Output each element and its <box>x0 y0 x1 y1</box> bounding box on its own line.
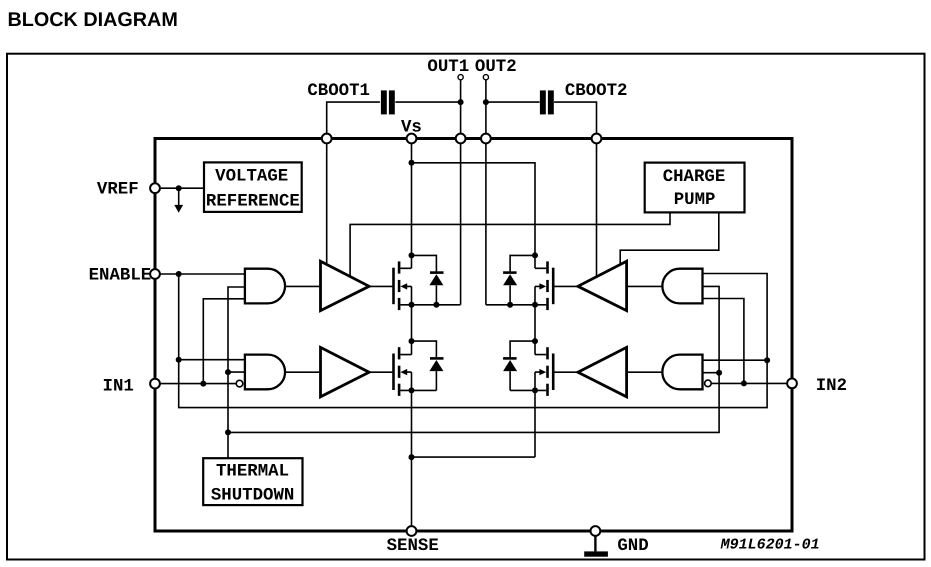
svg-text:SENSE: SENSE <box>387 537 439 556</box>
terminal VREF <box>150 183 160 193</box>
and-gate A2 lower-left <box>245 355 285 390</box>
bubble A4 inverted input <box>705 380 712 387</box>
svg-text:SHUTDOWN: SHUTDOWN <box>211 486 295 505</box>
terminal IN1 <box>150 379 160 389</box>
terminal OUT2 top <box>483 75 488 80</box>
mosfet Q1 upper-left <box>394 261 461 310</box>
capacitor CBOOT1 <box>381 90 395 114</box>
svg-text:IN2: IN2 <box>816 377 847 396</box>
terminal ENABLE <box>150 269 160 279</box>
wire IN1 input <box>160 383 237 385</box>
box charge pump <box>645 163 745 213</box>
rail crossing CBOOT1 <box>322 134 332 144</box>
wire OUT1 drop <box>460 80 462 305</box>
buffer B2 lower-left <box>321 347 370 396</box>
svg-text:M91L6201-01: M91L6201-01 <box>720 537 820 554</box>
diode D3 <box>503 255 535 304</box>
wire thermal to lower-left gate <box>228 371 245 373</box>
diode D2 <box>412 341 444 390</box>
box thermal shutdown <box>203 458 302 505</box>
wire half-bridge left column <box>411 286 413 531</box>
terminal SENSE <box>407 526 417 536</box>
svg-text:GND: GND <box>617 537 648 556</box>
wire IN2 to upper-right gate <box>703 299 744 384</box>
svg-text:OUT2: OUT2 <box>475 58 517 77</box>
svg-text:THERMAL: THERMAL <box>216 463 289 482</box>
buffer B3 upper-right <box>578 261 627 310</box>
mosfet Q4 lower-right <box>510 347 553 396</box>
wire ENABLE to lower-left gate <box>179 359 245 361</box>
terminal Vs <box>407 134 417 144</box>
mosfet Q2 lower-left <box>394 347 437 396</box>
capacitor CBOOT2 <box>540 90 554 114</box>
terminal OUT1 top <box>458 75 463 80</box>
svg-text:OUT1: OUT1 <box>427 58 469 77</box>
wire sense link <box>412 456 536 458</box>
wire ENABLE input <box>160 273 245 275</box>
buffer B1 upper-left <box>321 261 370 310</box>
wire gate3 to buffer3 <box>627 285 663 287</box>
wire thermal route to right gates <box>228 286 719 432</box>
mosfet Q3 upper-right <box>486 261 553 310</box>
svg-text:IN1: IN1 <box>103 378 134 397</box>
wire gate1 to buffer1 <box>285 285 320 287</box>
diode D1 <box>412 255 444 304</box>
wire half-bridge right column <box>534 286 536 457</box>
and-gate A1 upper-left <box>245 269 285 304</box>
buffer B4 lower-right <box>578 347 627 396</box>
svg-text:BLOCK DIAGRAM: BLOCK DIAGRAM <box>8 9 178 31</box>
wire charge pump to buffer1 <box>350 212 670 276</box>
svg-text:VOLTAGE: VOLTAGE <box>215 168 288 187</box>
wire buffer3 to Q3 gate <box>553 285 578 287</box>
svg-text:REFERENCE: REFERENCE <box>206 193 300 212</box>
wire VREF input <box>160 187 205 189</box>
wire IN2 input <box>711 382 788 384</box>
wire gate4 to buffer4 <box>627 371 663 373</box>
wire thermal vertical left <box>228 287 245 458</box>
wire IN1 to upper-left gate <box>203 299 245 384</box>
bubble A2 inverted input <box>236 380 243 387</box>
wire Vs branch to right drain <box>412 163 536 268</box>
rail crossing CBOOT2 <box>592 134 602 144</box>
svg-text:CBOOT1: CBOOT1 <box>307 82 370 101</box>
svg-text:Vs: Vs <box>401 119 422 138</box>
terminal GND <box>591 526 601 536</box>
arrow VREF down <box>174 188 183 213</box>
svg-text:CHARGE: CHARGE <box>663 168 726 187</box>
ground symbol <box>584 536 608 557</box>
terminal IN2 <box>787 379 797 389</box>
diode D4 <box>503 341 535 390</box>
wire ENABLE route to right gates <box>179 274 767 408</box>
and-gate A3 upper-right <box>662 269 702 304</box>
wire buffer2 to Q2 gate <box>369 371 393 373</box>
rail crossing OUT2 <box>481 134 491 144</box>
wire charge pump to buffer3 <box>620 212 719 264</box>
wire buffer1 to Q1 gate <box>369 285 393 287</box>
svg-text:PUMP: PUMP <box>674 191 716 210</box>
wire gate2 to buffer2 <box>285 371 320 373</box>
IC boundary box <box>155 139 792 532</box>
wire CBOOT2 net <box>486 102 597 277</box>
svg-text:CBOOT2: CBOOT2 <box>565 82 628 101</box>
wire ENABLE to lower-right gate <box>703 359 768 361</box>
wire buffer4 to Q4 gate <box>553 371 578 373</box>
wire thermal to lower-right gate <box>703 372 720 374</box>
rail crossing OUT1 <box>456 134 466 144</box>
svg-text:ENABLE: ENABLE <box>89 267 152 286</box>
wire Vs drop <box>411 139 413 269</box>
svg-text:VREF: VREF <box>97 181 139 200</box>
wire OUT2 drop <box>485 80 487 305</box>
and-gate A4 lower-right <box>662 355 702 390</box>
wire CBOOT1 net <box>327 102 461 264</box>
box voltage reference <box>204 162 302 212</box>
